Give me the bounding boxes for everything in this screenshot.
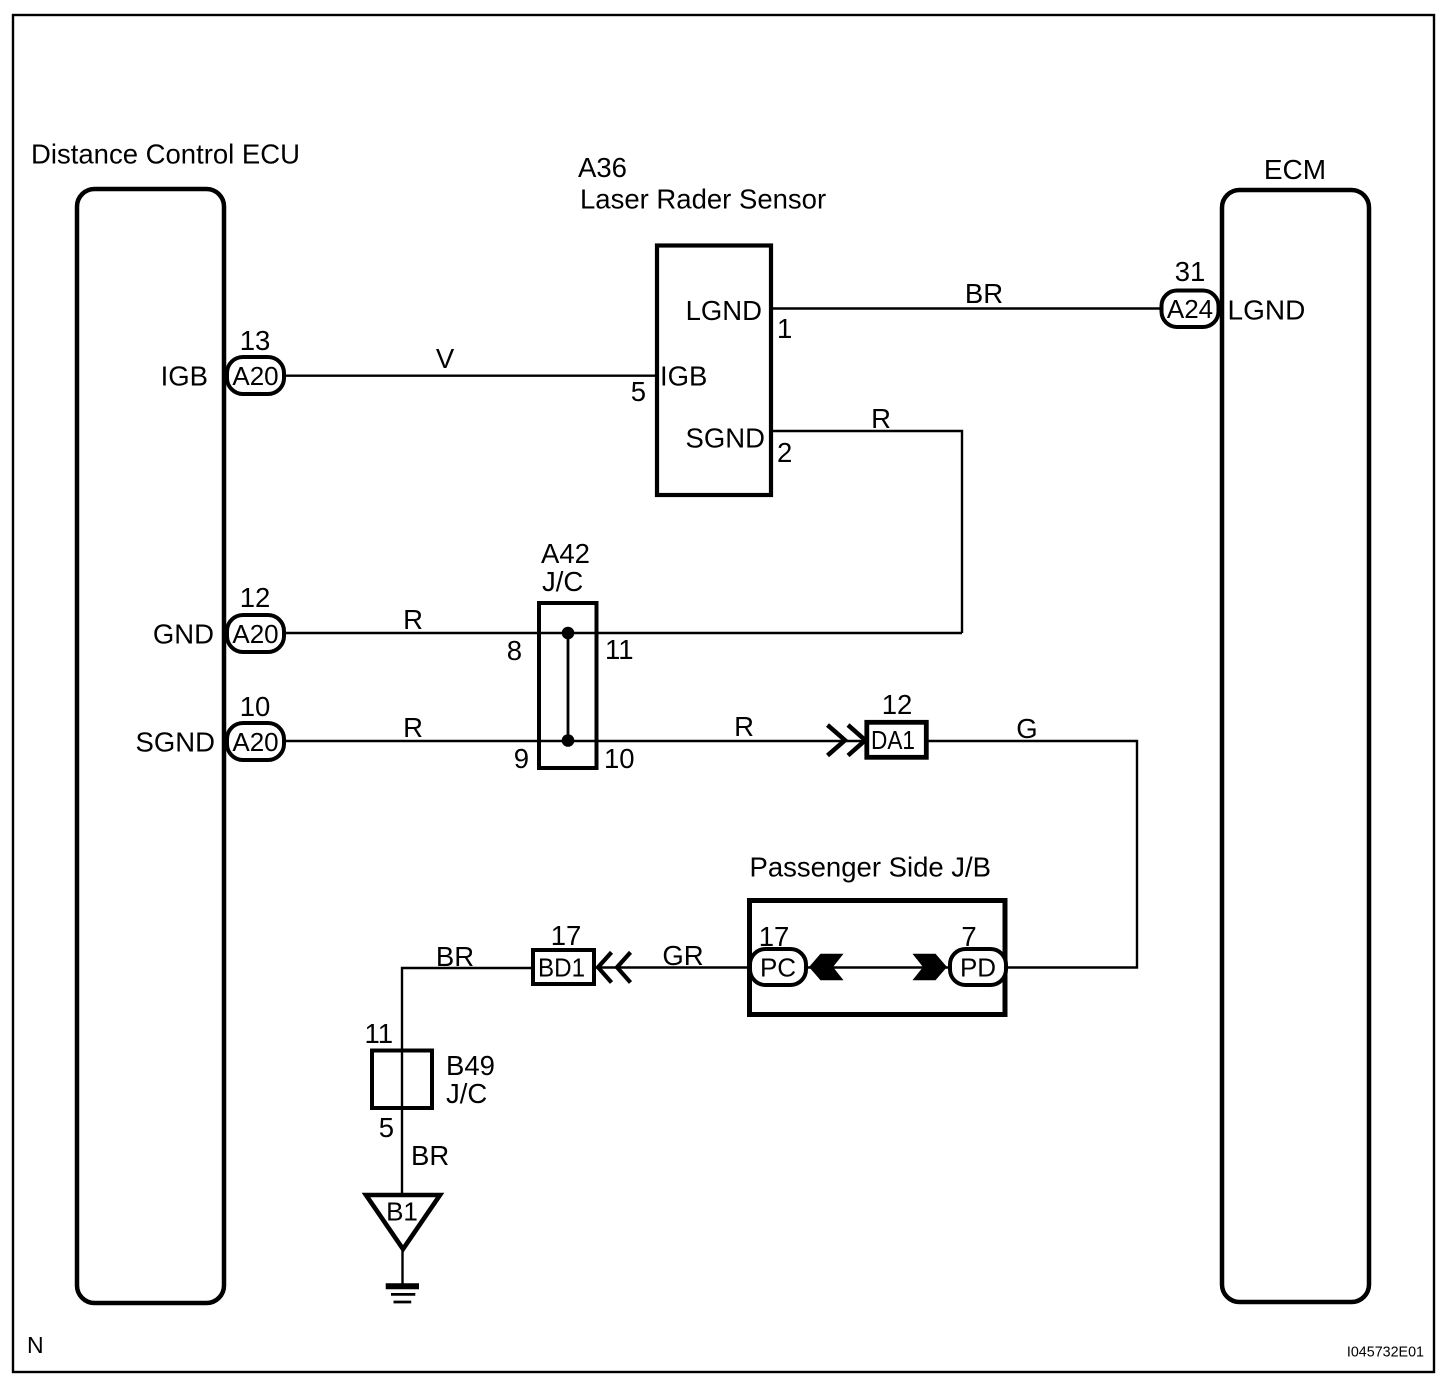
- svg-text:BR: BR: [436, 941, 474, 972]
- svg-text:J/C: J/C: [446, 1078, 487, 1109]
- svg-text:SGND: SGND: [686, 423, 765, 454]
- sensor A36 box: [657, 246, 771, 496]
- svg-text:LGND: LGND: [1228, 295, 1306, 326]
- connector DA1 box: [867, 722, 927, 757]
- svg-text:8: 8: [507, 635, 522, 666]
- junction node dot (pin 8-11): [562, 627, 575, 640]
- connector oval PC pin 17: [750, 949, 806, 985]
- svg-text:7: 7: [961, 921, 976, 952]
- junction node dot (pin 9-10): [562, 734, 575, 747]
- splice chevrons into BD1: [598, 952, 612, 982]
- svg-text:A42: A42: [541, 538, 590, 569]
- connector ECM body: [1222, 190, 1369, 1302]
- junction internal link wire: [567, 633, 570, 741]
- connector oval PD pin 7: [950, 949, 1006, 985]
- svg-text:DA1: DA1: [871, 725, 915, 755]
- svg-text:A20: A20: [232, 727, 278, 757]
- svg-text:Laser Rader Sensor: Laser Rader Sensor: [580, 184, 826, 215]
- svg-text:SGND: SGND: [136, 727, 215, 758]
- svg-text:PD: PD: [960, 953, 996, 983]
- svg-text:A20: A20: [232, 361, 278, 391]
- wire GR: J/B PC to BD1: [596, 966, 750, 968]
- connector BD1 box: [533, 950, 594, 984]
- svg-text:G: G: [1016, 713, 1037, 744]
- svg-text:Passenger Side J/B: Passenger Side J/B: [750, 852, 992, 883]
- junction A42 box: [539, 603, 597, 768]
- wire BR: A36 pin 1 to ECM A24: [771, 307, 1161, 309]
- svg-text:31: 31: [1175, 256, 1206, 287]
- svg-text:GR: GR: [662, 940, 703, 971]
- junction B49 box: [372, 1051, 432, 1109]
- wire R: SGND A20 to DA1: [285, 740, 865, 742]
- svg-text:BD1: BD1: [538, 953, 585, 983]
- svg-text:R: R: [734, 711, 754, 742]
- wire V: IGB A20 to A36 pin 5: [285, 375, 657, 377]
- svg-text:R: R: [403, 604, 423, 635]
- arrow right (into PD): [913, 954, 948, 980]
- svg-text:10: 10: [240, 691, 271, 722]
- splice chevrons into DA1: [828, 725, 846, 756]
- wire through B49: [401, 1049, 403, 1194]
- svg-text:R: R: [871, 403, 891, 434]
- arrow left (into PC): [809, 954, 844, 980]
- svg-text:12: 12: [240, 582, 271, 613]
- wire G: DA1 to J/B PD: [928, 741, 1137, 968]
- connector oval A20 pin 13 (IGB): [227, 357, 284, 394]
- svg-text:A24: A24: [1167, 294, 1213, 324]
- svg-text:17: 17: [551, 920, 582, 951]
- connector oval A24 pin 31: [1162, 291, 1219, 328]
- svg-text:B1: B1: [386, 1197, 418, 1227]
- svg-text:BR: BR: [965, 278, 1003, 309]
- svg-text:5: 5: [379, 1112, 394, 1143]
- svg-text:V: V: [436, 343, 455, 374]
- svg-text:9: 9: [514, 743, 529, 774]
- svg-text:12: 12: [882, 689, 913, 720]
- svg-text:A36: A36: [578, 152, 627, 183]
- connector oval A20 pin 10 (SGND): [227, 723, 284, 760]
- svg-text:I045732E01: I045732E01: [1347, 1345, 1424, 1361]
- svg-text:B49: B49: [446, 1050, 495, 1081]
- wire R: GND A20 to node at x962: [285, 632, 962, 634]
- svg-text:2: 2: [777, 437, 792, 468]
- connector Distance Control ECU body: [77, 189, 224, 1303]
- svg-text:Distance Control ECU: Distance Control ECU: [31, 139, 300, 170]
- junction block Passenger Side J/B box: [750, 901, 1006, 1015]
- svg-text:11: 11: [364, 1018, 393, 1049]
- svg-text:ECM: ECM: [1264, 154, 1326, 185]
- svg-text:BR: BR: [411, 1140, 449, 1171]
- svg-text:10: 10: [604, 743, 635, 774]
- svg-text:A20: A20: [232, 619, 278, 649]
- svg-text:GND: GND: [153, 619, 214, 650]
- connector oval A20 pin 12 (GND): [227, 615, 284, 652]
- svg-text:5: 5: [631, 376, 646, 407]
- svg-text:IGB: IGB: [161, 361, 208, 392]
- svg-text:LGND: LGND: [686, 295, 762, 326]
- svg-text:PC: PC: [760, 953, 796, 983]
- ground symbol: [386, 1283, 419, 1289]
- svg-text:11: 11: [605, 634, 634, 665]
- svg-text:J/C: J/C: [542, 566, 583, 597]
- svg-text:1: 1: [777, 313, 792, 344]
- ground connector triangle B1: [366, 1195, 440, 1249]
- svg-text:IGB: IGB: [660, 361, 707, 392]
- svg-text:17: 17: [759, 921, 790, 952]
- wire R: A36 pin 2 right then down to GND wire: [771, 431, 962, 633]
- wire BR: BD1 left then down to B49: [402, 968, 531, 1049]
- svg-text:R: R: [403, 712, 423, 743]
- svg-text:13: 13: [240, 325, 271, 356]
- wire B1 to ground: [401, 1249, 403, 1284]
- svg-text:N: N: [27, 1332, 44, 1358]
- wire inside J/B between PC and PD: [808, 966, 948, 968]
